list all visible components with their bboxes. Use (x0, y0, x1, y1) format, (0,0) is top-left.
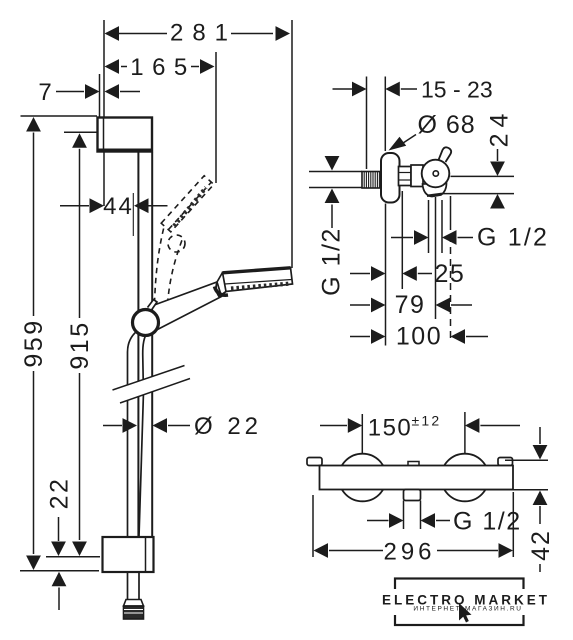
diameter 68 label (389, 111, 476, 151)
dim 7 (38, 74, 140, 117)
head cone crescent (215, 287, 229, 296)
top center button (408, 462, 419, 467)
svg-text:G 1/2: G 1/2 (453, 508, 522, 536)
threaded nipple (362, 172, 381, 189)
svg-text:915: 915 (66, 320, 94, 369)
hose break symbol (113, 366, 191, 404)
wall lines (309, 172, 362, 188)
mouse cursor (459, 603, 472, 623)
svg-text:Ø 68: Ø 68 (418, 111, 476, 139)
thermostat body (320, 466, 514, 490)
dim 44 (60, 193, 168, 236)
dim 100 (350, 323, 488, 351)
svg-text:Ø 22: Ø 22 (194, 413, 262, 440)
slider holder (133, 300, 159, 336)
dim 22 (bottom left) (46, 477, 74, 610)
G1/2 left label (318, 156, 346, 296)
reference lines below fixture (386, 191, 451, 346)
dim G1/2 right (391, 224, 549, 252)
right wall union (498, 458, 513, 466)
escutcheon (381, 153, 400, 203)
top bracket (98, 118, 153, 152)
knob (422, 160, 450, 188)
dim 296 (313, 492, 513, 566)
dim G1/2 thermostat (367, 501, 522, 536)
svg-text:44: 44 (103, 193, 134, 220)
svg-text:959: 959 (20, 318, 48, 367)
dim 165 (105, 52, 217, 183)
svg-text:7: 7 (38, 79, 51, 106)
svg-text:25: 25 (435, 260, 466, 288)
svg-text:ИНТЕРНЕТ-МАГАЗИН.RU: ИНТЕРНЕТ-МАГАЗИН.RU (413, 606, 522, 613)
svg-text:22: 22 (46, 477, 74, 510)
dim 15-23 (333, 77, 493, 170)
svg-text:165: 165 (130, 54, 196, 81)
dim 24 (443, 108, 514, 209)
dim 281 (104, 20, 292, 269)
svg-text:15 - 23: 15 - 23 (421, 77, 493, 103)
bottom bracket (103, 537, 154, 572)
svg-text:42: 42 (527, 529, 555, 561)
dim diameter 22 (103, 413, 262, 440)
svg-text:281: 281 (170, 20, 237, 47)
svg-text:G 1/2: G 1/2 (477, 224, 549, 252)
handle (solid) (152, 282, 222, 330)
hose connector (124, 600, 144, 620)
knob outlet below (423, 183, 447, 197)
svg-text:±12: ±12 (412, 413, 442, 429)
svg-text:296: 296 (383, 539, 435, 566)
head spray texture (231, 284, 291, 289)
svg-text:24: 24 (486, 108, 514, 148)
shower rail (138, 153, 152, 538)
svg-text:150: 150 (368, 415, 413, 442)
dim 915 (46, 132, 100, 557)
logo box (392, 579, 527, 626)
dim 959 (20, 116, 99, 571)
hose upper curve (128, 331, 147, 537)
dim 79 (350, 291, 472, 319)
svg-text:79: 79 (395, 291, 426, 319)
bottom outlet (404, 490, 421, 501)
knob ear (439, 147, 452, 162)
dim 42 (480, 427, 555, 572)
dim 25 (350, 260, 465, 288)
adapter (411, 165, 423, 187)
svg-text:100: 100 (396, 323, 442, 351)
right knob circle (441, 454, 489, 502)
dashed hand shower (upper position) (155, 176, 214, 304)
nut (399, 167, 412, 186)
left wall union (307, 458, 322, 466)
hose below bracket (128, 572, 140, 600)
left knob circle (339, 454, 387, 502)
dim 150 +-12 (320, 412, 520, 454)
svg-text:G 1/2: G 1/2 (318, 227, 346, 296)
solid hand shower head (216, 268, 292, 297)
dashed head spray texture (174, 188, 206, 227)
